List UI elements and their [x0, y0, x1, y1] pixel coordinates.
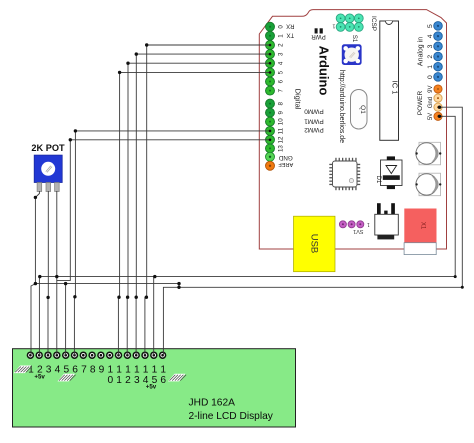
label IC 1 [390, 81, 399, 95]
microcontroller IC2 (QFP) [329, 158, 360, 190]
crystal Q1 [351, 90, 368, 130]
pin number 7 [278, 89, 285, 93]
junction on VO riser [46, 296, 49, 299]
label 9V [428, 86, 434, 93]
LCD pin number 11 (row 2) [116, 375, 122, 386]
svg-text:Q1: Q1 [359, 105, 366, 114]
label PWM0 [304, 108, 324, 115]
label PWM2 [304, 126, 324, 133]
svg-text:13: 13 [278, 145, 285, 152]
LCD pin number 5 (row 1) [63, 365, 69, 376]
svg-text:5V: 5V [428, 113, 434, 120]
svg-text:6: 6 [160, 375, 166, 386]
svg-text:3: 3 [134, 375, 140, 386]
svg-text:+5v: +5v [146, 383, 157, 390]
Arduino digital pin 3 [266, 50, 275, 59]
LCD pin number 10 (row 2) [107, 375, 113, 386]
pin number 0 [278, 25, 285, 29]
svg-text:12: 12 [278, 136, 285, 143]
ground symbol at LCD pin 1 [14, 366, 32, 374]
junction at Arduino pin 11 [269, 130, 272, 133]
label S1 [351, 35, 357, 43]
svg-text:4: 4 [427, 34, 434, 38]
junction GND rail at POT left leg wire [34, 282, 37, 285]
Arduino GND pin (digital side) [266, 152, 275, 161]
junction on E riser [73, 295, 76, 298]
svg-text:3: 3 [278, 52, 285, 56]
svg-text:0: 0 [278, 25, 285, 29]
svg-text:2-line LCD Display: 2-line LCD Display [189, 411, 274, 422]
LCD pin number 1 (row 1) [28, 365, 34, 376]
svg-text:9: 9 [278, 111, 285, 115]
label POWER [417, 91, 424, 116]
svg-text:8: 8 [278, 102, 285, 106]
svg-text:S1: S1 [351, 35, 357, 43]
svg-text:1: 1 [116, 375, 122, 386]
svg-text:PWM0: PWM0 [304, 108, 324, 115]
label Gnd [428, 97, 434, 108]
svg-text:USB: USB [309, 234, 320, 254]
LCD pin number 15 (row 2) [152, 375, 158, 386]
svg-text:5: 5 [427, 24, 434, 28]
junction at GND rail right corner [461, 286, 464, 289]
LCD pin 15 pad [151, 352, 157, 358]
LCD module DS1 body [13, 349, 296, 427]
LCD pin 9 pad [98, 352, 104, 358]
LCD pin number 8 (row 1) [90, 365, 96, 376]
svg-text:0: 0 [107, 375, 113, 386]
LCD pin number 16 (row 1) [160, 365, 166, 376]
svg-text:X1: X1 [420, 222, 426, 230]
label Analog in [418, 37, 425, 66]
junction at pin4 wire corner [126, 62, 129, 65]
diode D1 [381, 156, 403, 189]
pin number 1 [278, 34, 285, 38]
svg-text:1: 1 [278, 34, 285, 38]
LCD pin 8 pad [89, 352, 95, 358]
wire Arduino pin 5 to LCD pin 11 (D4) [118, 72, 270, 355]
label TX [286, 32, 294, 38]
capacitor C2 [415, 173, 441, 196]
svg-text:10: 10 [278, 118, 285, 125]
wire Arduino pin 12 to LCD pin 4 (RS) [57, 140, 270, 355]
svg-text:1: 1 [367, 221, 370, 227]
junction at Arduino pin 2 [269, 44, 272, 47]
svg-text:7: 7 [278, 89, 285, 93]
Arduino digital pin 1 TX [266, 31, 275, 40]
header SV1 [339, 221, 363, 228]
label +5v at LCD pin 15 [146, 383, 157, 390]
svg-text:+5v: +5v [34, 374, 45, 381]
LCD pin 14 pad [142, 352, 148, 358]
junction at Arduino pin 3 [269, 53, 272, 56]
Arduino digital pin 11 [266, 126, 275, 135]
junction +5V rail left end [38, 275, 41, 278]
junction GND rails join top [177, 282, 180, 285]
pin number 6 [278, 79, 285, 83]
svg-text:7: 7 [81, 365, 87, 376]
junction on D5 riser [126, 296, 129, 299]
Arduino digital pin 13 [266, 144, 275, 153]
label USB [309, 234, 320, 254]
SV1 pin 1 mark [367, 221, 370, 227]
junction at pin11 wire corner [74, 129, 77, 132]
svg-text:D1: D1 [375, 176, 381, 184]
wire Arduino pin 4 to LCD pin 12 (D5) [127, 63, 270, 355]
pin number 2 [278, 43, 285, 47]
junction +5V rail at POT right leg [55, 275, 58, 278]
voltage regulator VR1 [375, 203, 399, 239]
svg-text:0: 0 [427, 75, 434, 79]
power LED indicator [315, 28, 323, 33]
svg-text:GND: GND [278, 154, 292, 161]
Arduino AREF pin [266, 161, 275, 170]
wire Arduino pin 11 to LCD pin 6 (E) [74, 131, 270, 355]
Arduino board U1 outline [259, 10, 446, 249]
pin number 8 [278, 102, 285, 106]
label ICSP [370, 16, 377, 31]
svg-text:IC 1: IC 1 [390, 81, 399, 95]
svg-text:ICSP: ICSP [370, 16, 377, 31]
LCD pin number 14 (row 1) [143, 365, 149, 376]
Arduino digital pin 10 [266, 117, 275, 126]
svg-text:2: 2 [278, 43, 285, 47]
pin number 10 [278, 118, 285, 125]
svg-text:PWR: PWR [311, 33, 326, 40]
junction at pin12 wire corner [69, 138, 72, 141]
LCD pin 7 pad [80, 352, 86, 358]
label 2K POT [31, 143, 65, 153]
svg-text:TX: TX [286, 32, 294, 38]
pin number 3 [278, 52, 285, 56]
junction at Arduino pin 4 [269, 62, 272, 65]
wire +5V rail (node +5V) [40, 116, 455, 276]
LCD pin number 13 (row 2) [134, 375, 140, 386]
Arduino digital pin 5 [266, 68, 275, 77]
junction on D4 riser [117, 296, 120, 299]
svg-text:Arduino: Arduino [317, 46, 332, 96]
Arduino digital pin 0 RX [266, 22, 275, 31]
ground symbol at LCD pin 16 [168, 374, 186, 382]
junction at Arduino pin 5 [269, 71, 272, 74]
junction on D6 riser [135, 296, 138, 299]
label JHD 162A [189, 397, 236, 408]
svg-text:8: 8 [90, 365, 96, 376]
LCD pin 12 pad [124, 352, 130, 358]
label 2-line LCD Display [189, 411, 274, 422]
Arduino digital pin 4 [266, 59, 275, 68]
svg-text:Digital: Digital [294, 89, 303, 110]
svg-text:3: 3 [427, 44, 434, 48]
junction GND rail at LCD pin 5 drop [64, 282, 67, 285]
svg-text:JHD 162A: JHD 162A [189, 397, 236, 408]
junction at Arduino Gnd pin [438, 106, 441, 109]
junction at pin2 wire corner [145, 43, 148, 46]
LCD pin number 11 (row 1) [116, 365, 122, 376]
svg-text:2: 2 [427, 55, 434, 59]
LCD pin number 7 (row 1) [81, 365, 87, 376]
LCD pin number 15 (row 1) [152, 365, 158, 376]
svg-text:RX: RX [286, 23, 294, 29]
label Q1 [359, 105, 366, 114]
pin number 13 [278, 145, 285, 152]
LCD pin 16 pad [160, 352, 166, 358]
LCD pin 13 pad [133, 352, 139, 358]
svg-text:9V: 9V [428, 86, 434, 93]
ICSP pin 1 mark [332, 23, 335, 29]
LCD pin number 10 (row 1) [107, 365, 113, 376]
LCD pin number 9 (row 1) [99, 365, 105, 376]
pin number 12 [278, 136, 285, 143]
label +5v at LCD pin 2 [34, 374, 45, 381]
LCD pin 11 pad [116, 352, 122, 358]
wire Arduino pin 3 to LCD pin 13 (D6) [136, 54, 270, 355]
LCD pin number 3 (row 1) [46, 365, 52, 376]
Arduino digital pin 9 [266, 108, 275, 117]
Arduino digital pin 7 [266, 86, 275, 95]
potentiometer R1 2K POT body [34, 155, 62, 182]
label RX [286, 23, 294, 29]
LCD pin 4 pad [54, 352, 60, 358]
label PWM1 [304, 118, 324, 125]
LCD pin 10 pad [107, 352, 113, 358]
label GND [278, 154, 292, 161]
junction at +5V rail right corner [454, 275, 457, 278]
svg-text:1: 1 [427, 65, 434, 69]
Arduino digital pin 12 [266, 135, 275, 144]
svg-text:4: 4 [278, 61, 285, 65]
svg-text:Gnd: Gnd [428, 97, 434, 108]
LCD pin 1 pad [27, 352, 33, 358]
reset button S1 [342, 44, 362, 65]
svg-text:Analog in: Analog in [418, 37, 425, 66]
Analog in header [434, 22, 443, 82]
wire +5V rail drop to LCD pin 2 (VDD) [38, 277, 40, 356]
wire GND rail B (left ground branch) [35, 284, 179, 288]
LCD pin number 6 (row 1) [72, 365, 78, 376]
svg-text:2K POT: 2K POT [31, 143, 65, 153]
LCD pin number 4 (row 1) [55, 365, 61, 376]
junction +5V rail at LCD pin 15 drop [153, 275, 156, 278]
junction GND rails join bottom [177, 286, 180, 289]
svg-text:http://arduino.berlios.de: http://arduino.berlios.de [338, 70, 345, 143]
wire GND rail from Arduino Gnd pin (node GND) [163, 107, 462, 355]
ground symbol at LCD pin 5 [58, 374, 76, 382]
label AREF [278, 161, 294, 167]
wire Arduino pin 2 to LCD pin 14 (D7) [145, 45, 270, 355]
svg-text:11: 11 [278, 127, 285, 134]
label SV1 [353, 228, 363, 234]
svg-text:6: 6 [278, 79, 285, 83]
label http://arduino.berlios.de [338, 70, 345, 143]
LCD pin number 16 (row 2) [160, 375, 166, 386]
wire POT wiper to LCD pin 3 (VO) [47, 191, 49, 355]
LCD pin number 12 (row 2) [125, 375, 131, 386]
Arduino digital pin 6 [266, 77, 275, 86]
power jack X1 [404, 209, 436, 255]
LCD pin number 12 (row 1) [125, 365, 131, 376]
pin number 9 [278, 111, 285, 115]
svg-text:POWER: POWER [417, 91, 424, 116]
junction at pin5 wire corner [118, 71, 121, 74]
LCD pin 6 pad [72, 352, 78, 358]
IC U2 (IC 1) [380, 21, 399, 140]
label Digital [294, 89, 303, 110]
LCD pin 5 pad [63, 352, 69, 358]
wire GND branch to LCD pin 5 (RW) [65, 284, 67, 356]
LCD pin 3 pad [45, 352, 51, 358]
svg-text:3: 3 [46, 365, 52, 376]
svg-text:SV1: SV1 [353, 228, 363, 234]
USB connector X2 [294, 216, 336, 272]
wire POT left leg to ground rail [35, 191, 39, 284]
junction on D7 riser [145, 296, 148, 299]
svg-text:2: 2 [125, 375, 131, 386]
pin number 5 [278, 70, 285, 74]
capacitor C1 [415, 142, 441, 165]
wire +5V rail drop to LCD pin 15 (LED+) [154, 277, 155, 356]
svg-text:4: 4 [55, 365, 61, 376]
Arduino digital pin 8 [266, 99, 275, 108]
POWER header pins [434, 85, 442, 121]
junction at Arduino 5V pin [438, 115, 441, 118]
label X1 [420, 222, 426, 230]
svg-text:PWM2: PWM2 [304, 126, 324, 133]
label 5V [428, 113, 434, 120]
potentiometer R1 legs [37, 183, 59, 192]
ICSP header pins [336, 14, 363, 31]
svg-text:AREF: AREF [278, 161, 294, 167]
svg-text:1: 1 [332, 23, 335, 29]
label D1 [375, 176, 381, 184]
Arduino digital pin 2 [266, 41, 275, 50]
pin number 4 [278, 61, 285, 65]
LCD pin 2 pad [36, 352, 42, 358]
wire GND branch to LCD pin 1 (VSS) [31, 284, 35, 356]
junction on POT left leg wire [34, 196, 37, 199]
wire POT right leg to +5V rail [56, 191, 58, 280]
label Arduino [317, 46, 332, 96]
svg-text:PWM1: PWM1 [304, 118, 324, 125]
LCD pin number 14 (row 2) [143, 375, 149, 386]
svg-text:5: 5 [278, 70, 285, 74]
junction at Arduino pin 12 [269, 139, 272, 142]
pin number 11 [278, 127, 285, 134]
label PWR [311, 33, 326, 40]
junction at pin3 wire corner [135, 52, 138, 55]
analog pin numbers 0-5 [427, 24, 434, 79]
LCD pin number 13 (row 1) [134, 365, 140, 376]
LCD pin number 2 (row 1) [37, 365, 43, 376]
svg-text:9: 9 [99, 365, 105, 376]
